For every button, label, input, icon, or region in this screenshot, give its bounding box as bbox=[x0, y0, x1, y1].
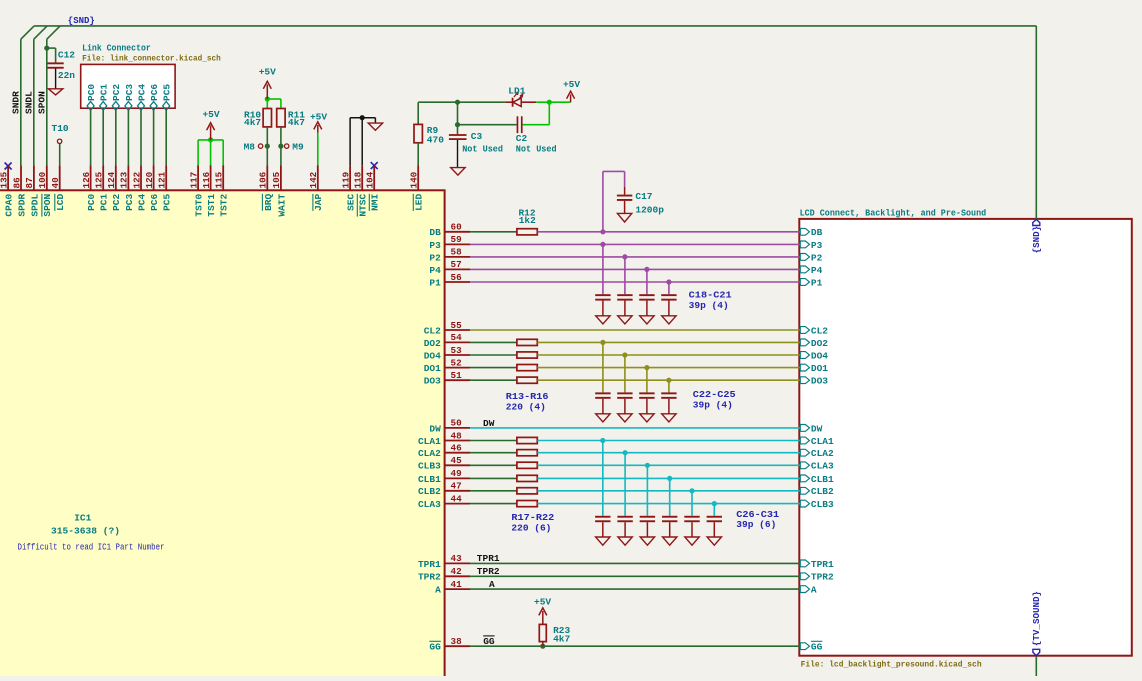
svg-text:44: 44 bbox=[451, 493, 463, 504]
svg-text:42: 42 bbox=[451, 566, 463, 577]
svg-text:P1: P1 bbox=[811, 277, 823, 288]
svg-text:39p (6): 39p (6) bbox=[736, 519, 776, 530]
svg-text:52: 52 bbox=[451, 357, 463, 368]
svg-text:118: 118 bbox=[353, 171, 364, 188]
svg-text:CLA2: CLA2 bbox=[418, 448, 441, 459]
svg-text:CPA0: CPA0 bbox=[4, 194, 15, 217]
svg-text:SPDR: SPDR bbox=[16, 194, 27, 217]
svg-text:Difficult to read IC1 Part Num: Difficult to read IC1 Part Number bbox=[18, 542, 165, 552]
svg-text:115: 115 bbox=[214, 171, 225, 188]
svg-text:DO3: DO3 bbox=[424, 376, 441, 387]
svg-text:PC3: PC3 bbox=[124, 84, 135, 101]
svg-text:TPR2: TPR2 bbox=[811, 572, 834, 583]
svg-text:File: lcd_backlight_presound.k: File: lcd_backlight_presound.kicad_sch bbox=[801, 660, 982, 670]
svg-text:47: 47 bbox=[451, 481, 462, 492]
svg-text:4k7: 4k7 bbox=[244, 117, 261, 128]
svg-text:+5V: +5V bbox=[534, 597, 551, 608]
svg-text:M9: M9 bbox=[292, 142, 304, 153]
svg-text:100: 100 bbox=[37, 171, 48, 188]
svg-text:A: A bbox=[489, 579, 495, 590]
svg-text:TST0: TST0 bbox=[194, 194, 205, 217]
svg-text:1k2: 1k2 bbox=[519, 215, 536, 226]
svg-text:P1: P1 bbox=[429, 277, 441, 288]
svg-text:TPR2: TPR2 bbox=[418, 572, 441, 583]
svg-text:LED: LED bbox=[414, 194, 425, 211]
svg-text:CLB2: CLB2 bbox=[811, 486, 834, 497]
svg-text:124: 124 bbox=[106, 171, 117, 188]
svg-text:Link Connector: Link Connector bbox=[82, 42, 151, 53]
svg-text:123: 123 bbox=[119, 171, 130, 188]
svg-text:4k7: 4k7 bbox=[288, 117, 305, 128]
svg-text:CLA1: CLA1 bbox=[811, 436, 834, 447]
svg-text:LCD: LCD bbox=[55, 194, 66, 211]
svg-text:54: 54 bbox=[451, 332, 463, 343]
svg-text:45: 45 bbox=[451, 455, 463, 466]
svg-text:C22-C25: C22-C25 bbox=[693, 389, 736, 400]
svg-text:{SND}: {SND} bbox=[1031, 226, 1042, 254]
svg-text:C17: C17 bbox=[635, 191, 652, 202]
svg-text:PC0: PC0 bbox=[86, 194, 97, 211]
svg-text:GG: GG bbox=[811, 642, 823, 653]
svg-text:C12: C12 bbox=[58, 50, 75, 61]
svg-text:46: 46 bbox=[451, 443, 463, 454]
svg-text:CLA3: CLA3 bbox=[418, 499, 441, 510]
svg-text:P3: P3 bbox=[811, 240, 823, 251]
svg-text:116: 116 bbox=[201, 171, 212, 188]
svg-text:PC1: PC1 bbox=[99, 84, 110, 101]
svg-text:CLA1: CLA1 bbox=[418, 436, 441, 447]
svg-text:P4: P4 bbox=[429, 265, 441, 276]
svg-text:105: 105 bbox=[271, 171, 282, 188]
svg-text:39p (4): 39p (4) bbox=[693, 400, 733, 411]
svg-text:51: 51 bbox=[451, 370, 463, 381]
svg-text:C2: C2 bbox=[516, 133, 528, 144]
svg-text:142: 142 bbox=[308, 171, 319, 188]
svg-text:140: 140 bbox=[409, 171, 420, 188]
svg-text:DO3: DO3 bbox=[811, 376, 828, 387]
svg-text:A: A bbox=[435, 585, 441, 596]
svg-text:DO1: DO1 bbox=[811, 363, 828, 374]
svg-text:CL2: CL2 bbox=[424, 325, 441, 336]
svg-text:+5V: +5V bbox=[202, 109, 219, 120]
svg-text:TST1: TST1 bbox=[206, 194, 217, 217]
svg-text:TPR2: TPR2 bbox=[477, 566, 500, 577]
svg-text:39p (4): 39p (4) bbox=[689, 300, 729, 311]
svg-text:CLB3: CLB3 bbox=[811, 499, 834, 510]
svg-text:CLA3: CLA3 bbox=[811, 461, 834, 472]
svg-text:PC3: PC3 bbox=[124, 194, 135, 211]
svg-text:PC4: PC4 bbox=[136, 84, 147, 101]
svg-text:GG: GG bbox=[429, 642, 441, 653]
svg-text:TPR1: TPR1 bbox=[477, 553, 500, 564]
svg-text:DW: DW bbox=[429, 423, 441, 434]
svg-text:4k7: 4k7 bbox=[553, 634, 570, 645]
svg-text:SPON: SPON bbox=[36, 91, 47, 114]
svg-text:220 (6): 220 (6) bbox=[511, 523, 551, 534]
svg-text:38: 38 bbox=[451, 636, 463, 647]
svg-text:DO4: DO4 bbox=[424, 350, 441, 361]
svg-text:DW: DW bbox=[483, 418, 495, 429]
svg-text:58: 58 bbox=[451, 247, 463, 258]
svg-text:CL2: CL2 bbox=[811, 325, 828, 336]
svg-text:PC6: PC6 bbox=[149, 84, 160, 101]
svg-text:{TV_SOUND}: {TV_SOUND} bbox=[1031, 591, 1042, 646]
svg-text:135: 135 bbox=[0, 171, 9, 188]
svg-text:R17-R22: R17-R22 bbox=[511, 512, 554, 523]
svg-text:CLB1: CLB1 bbox=[811, 474, 834, 485]
svg-text:IC1: IC1 bbox=[74, 513, 91, 524]
svg-text:Not Used: Not Used bbox=[516, 143, 557, 154]
svg-text:+5V: +5V bbox=[310, 112, 327, 123]
svg-text:CLB2: CLB2 bbox=[418, 486, 441, 497]
svg-text:CLB3: CLB3 bbox=[418, 461, 441, 472]
svg-text:C18-C21: C18-C21 bbox=[689, 289, 732, 300]
svg-text:BRQ: BRQ bbox=[263, 194, 274, 211]
svg-text:P4: P4 bbox=[811, 265, 823, 276]
svg-text:87: 87 bbox=[24, 177, 35, 188]
svg-text:50: 50 bbox=[451, 418, 463, 429]
svg-text:+5V: +5V bbox=[259, 67, 276, 78]
svg-text:NTSC: NTSC bbox=[358, 194, 369, 217]
svg-text:+5V: +5V bbox=[563, 79, 580, 90]
svg-text:T10: T10 bbox=[52, 123, 69, 134]
svg-text:120: 120 bbox=[144, 171, 155, 188]
svg-text:119: 119 bbox=[340, 171, 351, 188]
svg-text:CLA2: CLA2 bbox=[811, 448, 834, 459]
svg-text:PC6: PC6 bbox=[149, 194, 160, 211]
svg-text:DB: DB bbox=[429, 227, 441, 238]
svg-text:WAIT: WAIT bbox=[276, 194, 287, 217]
svg-text:220 (4): 220 (4) bbox=[506, 401, 546, 412]
svg-text:126: 126 bbox=[81, 171, 92, 188]
svg-text:22n: 22n bbox=[58, 70, 75, 81]
svg-text:SEC: SEC bbox=[346, 194, 357, 211]
svg-text:55: 55 bbox=[451, 320, 463, 331]
svg-text:JAP: JAP bbox=[313, 194, 324, 211]
svg-text:DB: DB bbox=[811, 227, 823, 238]
svg-text:M8: M8 bbox=[244, 142, 256, 153]
svg-text:86: 86 bbox=[11, 177, 22, 189]
svg-text:TPR1: TPR1 bbox=[811, 559, 834, 570]
svg-text:40: 40 bbox=[50, 177, 61, 189]
svg-text:PC5: PC5 bbox=[162, 84, 173, 101]
svg-text:GG: GG bbox=[483, 636, 495, 647]
svg-text:{SND}: {SND} bbox=[68, 15, 95, 26]
svg-text:57: 57 bbox=[451, 259, 462, 270]
svg-text:P2: P2 bbox=[429, 252, 441, 263]
svg-text:DO1: DO1 bbox=[424, 363, 441, 374]
svg-text:104: 104 bbox=[365, 171, 376, 188]
svg-text:PC2: PC2 bbox=[111, 194, 122, 211]
svg-text:470: 470 bbox=[427, 134, 444, 145]
svg-text:Not Used: Not Used bbox=[462, 143, 503, 154]
svg-text:P2: P2 bbox=[811, 252, 823, 263]
svg-text:PC4: PC4 bbox=[136, 194, 147, 211]
svg-text:SNDR: SNDR bbox=[10, 91, 21, 114]
svg-text:SPON: SPON bbox=[42, 194, 53, 217]
svg-text:1200p: 1200p bbox=[635, 205, 664, 216]
svg-text:DO2: DO2 bbox=[811, 338, 828, 349]
svg-text:121: 121 bbox=[157, 171, 168, 188]
svg-text:DW: DW bbox=[811, 423, 823, 434]
svg-text:59: 59 bbox=[451, 234, 463, 245]
svg-text:125: 125 bbox=[94, 171, 105, 188]
svg-text:DO2: DO2 bbox=[424, 338, 441, 349]
svg-text:DO4: DO4 bbox=[811, 350, 828, 361]
svg-text:56: 56 bbox=[451, 272, 463, 283]
svg-text:106: 106 bbox=[258, 171, 269, 188]
svg-text:SPDL: SPDL bbox=[29, 194, 40, 217]
svg-text:60: 60 bbox=[451, 222, 463, 233]
svg-text:PC5: PC5 bbox=[162, 194, 173, 211]
svg-text:43: 43 bbox=[451, 553, 463, 564]
svg-text:SNDL: SNDL bbox=[23, 91, 34, 114]
svg-text:PC1: PC1 bbox=[99, 194, 110, 211]
svg-text:PC0: PC0 bbox=[86, 84, 97, 101]
svg-text:NMI: NMI bbox=[370, 194, 381, 211]
svg-text:TPR1: TPR1 bbox=[418, 559, 441, 570]
svg-text:PC2: PC2 bbox=[111, 84, 122, 101]
svg-text:53: 53 bbox=[451, 345, 463, 356]
svg-text:41: 41 bbox=[451, 579, 463, 590]
svg-text:48: 48 bbox=[451, 430, 463, 441]
svg-text:122: 122 bbox=[131, 171, 142, 188]
svg-text:TST2: TST2 bbox=[219, 194, 230, 217]
svg-text:LD1: LD1 bbox=[508, 86, 525, 97]
svg-text:C26-C31: C26-C31 bbox=[736, 509, 779, 520]
svg-text:A: A bbox=[811, 585, 817, 596]
svg-text:LCD Connect, Backlight, and Pr: LCD Connect, Backlight, and Pre-Sound bbox=[800, 208, 987, 219]
svg-text:315-3638 (?): 315-3638 (?) bbox=[51, 525, 120, 536]
svg-text:P3: P3 bbox=[429, 240, 441, 251]
svg-text:R13-R16: R13-R16 bbox=[506, 391, 549, 402]
svg-text:C3: C3 bbox=[471, 131, 483, 142]
svg-text:49: 49 bbox=[451, 468, 463, 479]
svg-text:117: 117 bbox=[188, 172, 199, 189]
svg-text:CLB1: CLB1 bbox=[418, 474, 441, 485]
svg-text:File: link_connector.kicad_sch: File: link_connector.kicad_sch bbox=[82, 54, 221, 64]
